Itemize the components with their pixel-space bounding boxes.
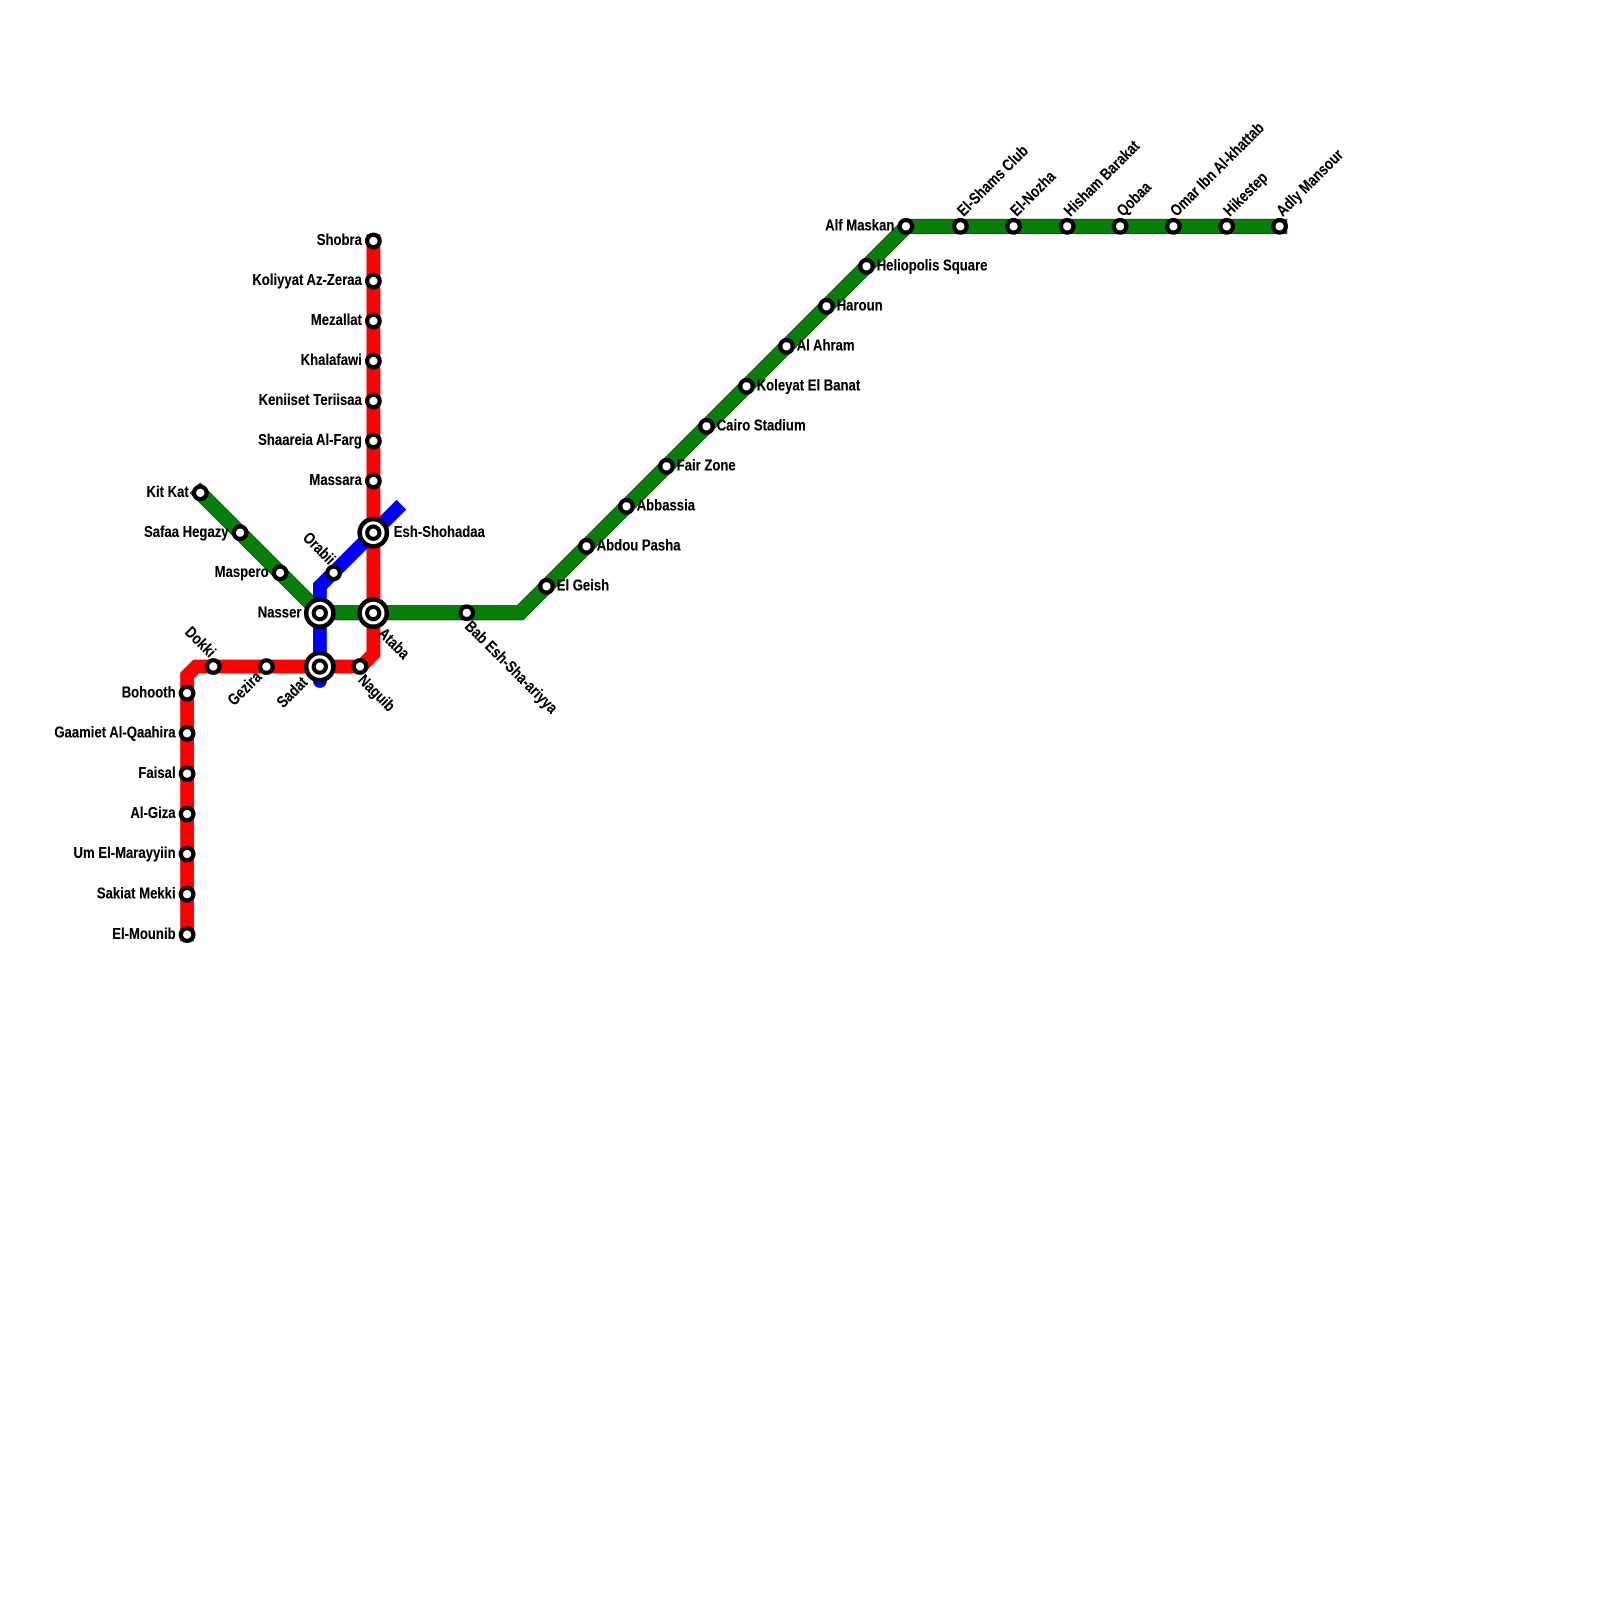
svg-text:Al-Giza: Al-Giza <box>130 805 176 822</box>
svg-text:Haroun: Haroun <box>837 297 883 314</box>
svg-text:Nasser: Nasser <box>258 604 302 621</box>
svg-text:El Geish: El Geish <box>557 577 610 594</box>
svg-text:Khalafawi: Khalafawi <box>301 352 362 369</box>
svg-text:Alf Maskan: Alf Maskan <box>825 217 894 234</box>
svg-text:Koliyyat Az-Zeraa: Koliyyat Az-Zeraa <box>252 272 362 289</box>
svg-text:Faisal: Faisal <box>138 765 175 782</box>
svg-text:Maspero: Maspero <box>215 564 269 581</box>
svg-text:Heliopolis Square: Heliopolis Square <box>877 257 988 274</box>
svg-text:Al Ahram: Al Ahram <box>797 337 855 354</box>
svg-text:Cairo Stadium: Cairo Stadium <box>717 417 806 434</box>
svg-text:Koleyat El Banat: Koleyat El Banat <box>757 377 861 394</box>
svg-text:Sakiat Mekki: Sakiat Mekki <box>97 885 176 902</box>
svg-text:Shaareia Al-Farg: Shaareia Al-Farg <box>258 432 362 449</box>
svg-text:Esh-Shohadaa: Esh-Shohadaa <box>394 524 486 541</box>
svg-text:Bohooth: Bohooth <box>122 684 176 701</box>
svg-text:Massara: Massara <box>309 472 362 489</box>
svg-text:Shobra: Shobra <box>317 232 363 249</box>
svg-text:Abdou Pasha: Abdou Pasha <box>597 537 682 554</box>
svg-text:Safaa Hegazy: Safaa Hegazy <box>144 524 229 541</box>
svg-text:Um El-Marayyiin: Um El-Marayyiin <box>74 845 176 862</box>
svg-text:Abbassia: Abbassia <box>637 497 696 514</box>
svg-text:Gaamiet Al-Qaahira: Gaamiet Al-Qaahira <box>54 724 176 741</box>
svg-text:Kit Kat: Kit Kat <box>147 484 189 501</box>
svg-text:Mezallat: Mezallat <box>311 312 362 329</box>
svg-text:Fair Zone: Fair Zone <box>677 457 736 474</box>
svg-text:Keniiset Teriisaa: Keniiset Teriisaa <box>259 392 363 409</box>
svg-text:El-Mounib: El-Mounib <box>112 926 175 943</box>
